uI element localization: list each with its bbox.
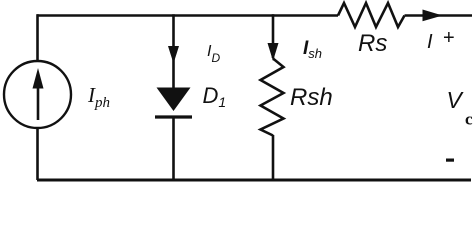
resistor Rsh — [261, 59, 284, 136]
current arrow ID — [168, 46, 179, 64]
wire top bus left segment — [37, 14, 338, 17]
wire left branch lower — [36, 128, 39, 180]
label minus — [446, 159, 454, 162]
current source Iph circle — [4, 61, 71, 128]
svg-text:Rs: Rs — [358, 30, 387, 57]
svg-text:Iph: Iph — [87, 83, 110, 111]
wire shunt branch lower — [272, 135, 275, 180]
wire top bus right segment — [405, 14, 473, 17]
svg-text:ID: ID — [207, 43, 220, 65]
svg-text:+: + — [443, 27, 455, 49]
svg-text:I: I — [427, 31, 433, 53]
svg-text:Ish: Ish — [303, 38, 322, 61]
wire diode branch upper — [172, 14, 175, 88]
current arrow Ish — [268, 43, 279, 61]
current source Iph arrow — [37, 86, 40, 120]
svg-text:D1: D1 — [203, 83, 227, 110]
current arrow I (output) — [423, 10, 443, 22]
diode D1 triangle — [157, 88, 191, 112]
resistor Rs — [338, 3, 405, 27]
svg-text:c: c — [465, 110, 473, 129]
wire shunt branch upper — [272, 14, 275, 58]
svg-text:Rsh: Rsh — [290, 84, 333, 111]
wire left branch upper — [36, 14, 39, 61]
diode D1 cathode bar — [155, 115, 192, 118]
wire bottom bus — [37, 179, 471, 182]
svg-text:V: V — [447, 87, 465, 113]
wire diode branch lower — [172, 117, 175, 180]
